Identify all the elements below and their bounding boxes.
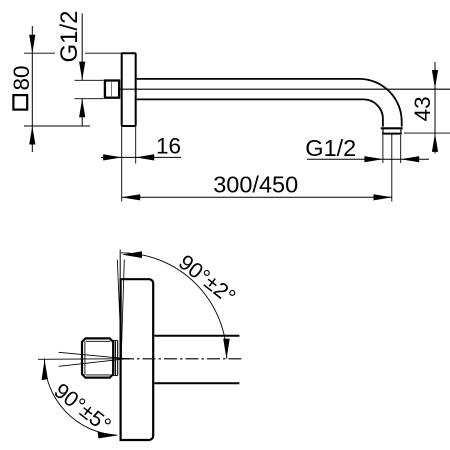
centerline (dash-dot): [121, 358, 243, 360]
dim 16: label: [156, 134, 181, 159]
dim G1/2 nozzle: left arrow (pointing right): [364, 156, 383, 162]
nipple collar between nut and flange: [113, 340, 118, 375]
angle dim 90+-5: label (rotated): [50, 379, 116, 438]
dim G1/2 left: dimension line upper part: [81, 14, 83, 81]
dim square-80: label "80" (rotated): [9, 65, 34, 90]
angle dim 90+-2: top arrow (pointing left): [122, 251, 143, 258]
dim 16: right extension line: [135, 127, 137, 164]
dim 16: left arrow (pointing right): [103, 154, 122, 160]
dim 300/450: label: [213, 171, 298, 197]
dim 16: left extension line (flange wall face, shared with 300/450): [121, 127, 123, 202]
dim square-80: dimension line: [31, 26, 33, 152]
plus-minus 2deg tolerance fan lines: [117, 260, 124, 358]
svg-text:300/450: 300/450: [213, 171, 298, 197]
dim G1/2 nozzle: label: [305, 135, 356, 161]
arm tube bottom edge (profile view): [154, 382, 239, 384]
dim G1/2 nozzle: extension lines: [383, 135, 401, 163]
svg-text:16: 16: [156, 134, 181, 159]
dim 43: bottom extension line: [404, 132, 450, 134]
dim G1/2 left: dimension line lower part: [81, 99, 83, 127]
angle dim 90+-5: arc: [45, 359, 118, 435]
svg-text:G1/2: G1/2: [56, 10, 83, 62]
angle dim 90+-5: top arrow (pointing up): [42, 360, 48, 381]
dim 16: right arrow (pointing left): [136, 154, 155, 160]
dim square-80: bottom arrow (up): [29, 126, 35, 145]
wall flange (side view): [122, 53, 136, 126]
hex nut facet lines: [85, 341, 111, 375]
dim G1/2 left: top arrow (down): [79, 62, 85, 81]
svg-text:G1/2: G1/2: [305, 135, 356, 161]
dim G1/2 left: bottom arrow (up): [79, 99, 85, 118]
nozzle thread ring: [382, 129, 402, 133]
plus-minus 5deg tolerance fan lines: [59, 352, 130, 366]
dim 16: dimension line: [101, 156, 181, 158]
dim 43: dimension line: [434, 62, 436, 154]
arm tube top edge (profile view): [154, 335, 239, 337]
svg-text:90°±2°: 90°±2°: [174, 250, 240, 309]
svg-text:43: 43: [410, 96, 435, 121]
dim 300/450: dimension line: [122, 196, 392, 198]
dim G1/2 nozzle: dimension line: [307, 158, 429, 160]
dim square-80: top arrow (down): [29, 35, 35, 54]
square G1/2 wall nipple: [105, 81, 119, 98]
svg-text:80: 80: [9, 65, 34, 90]
angle dim 90+-2: label (rotated): [174, 250, 240, 309]
horizontal reference fan line: [38, 358, 130, 361]
centerline of arm (solid thin, also serves as 43-dim top extension): [118, 88, 450, 90]
dim square-80: square symbol: [13, 95, 27, 110]
angle dim 90+-2: arc: [121, 253, 227, 359]
dim square-80: top extension line (gap at G1/2 text): [24, 52, 122, 54]
dim 300/450: right arrow (pointing right): [374, 194, 393, 200]
dim 300/450: left arrow (pointing left): [122, 194, 141, 200]
dim square-80: bottom extension line: [24, 125, 90, 127]
dim 43: top arrow (down): [432, 70, 438, 89]
wall flange (profile view, rounded right corners): [121, 279, 154, 440]
arm tube top edge with outer bend arc: [137, 79, 402, 127]
arm tube bottom edge with inner bend arc: [137, 99, 383, 126]
angle dim 90+-2: bottom arrow (pointing down): [223, 339, 230, 359]
dim G1/2 left: label (rotated): [56, 10, 83, 62]
nozzle shoulder (thick bar): [381, 127, 403, 129]
angle dim 90+-5: bottom arrow (pointing right): [98, 432, 118, 439]
dim 300/450: right extension line (nozzle center): [391, 135, 393, 202]
svg-text:90°±5°: 90°±5°: [50, 379, 116, 438]
vertical reference line (flange face): [119, 250, 121, 281]
dim 43: bottom arrow (up): [432, 133, 438, 152]
dim G1/2 nozzle: right arrow (pointing left): [401, 156, 420, 162]
dim G1/2 left: extension lines: [75, 80, 104, 98]
dim 43: label (rotated): [410, 96, 435, 121]
hex nut of wall nipple (profile view, chamfered): [82, 338, 113, 377]
